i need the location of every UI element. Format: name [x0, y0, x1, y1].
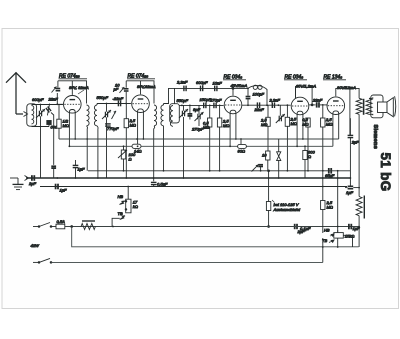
- cap diagonal 22nF: [42, 104, 54, 116]
- svg-text:22nF: 22nF: [48, 97, 59, 102]
- cap 65uF: [329, 168, 331, 174]
- fuse 0,5A: [56, 224, 65, 229]
- svg-text:22nF: 22nF: [254, 107, 265, 112]
- svg-text:Austauschtafel: Austauschtafel: [273, 207, 301, 212]
- trimmer: [179, 109, 188, 118]
- antenna: [6, 72, 26, 114]
- detector coil box: [170, 104, 180, 123]
- arrow: [112, 111, 117, 119]
- svg-text:TB: TB: [322, 238, 327, 243]
- svg-text:80Ω: 80Ω: [238, 149, 246, 154]
- rail L4 main bus: [26, 177, 350, 179]
- rail L3: [88, 170, 350, 172]
- svg-text:600pF: 600pF: [32, 97, 44, 102]
- field coil: [356, 196, 364, 248]
- cap 1uF top right: [348, 186, 354, 188]
- svg-text:1μF: 1μF: [78, 167, 85, 172]
- svg-text:Ω: Ω: [308, 154, 311, 159]
- svg-text:1μF: 1μF: [60, 188, 67, 193]
- cap 0,5uF on L5: [151, 182, 157, 184]
- rail L1: [59, 138, 339, 140]
- wire to stage2 grid: [97, 103, 131, 105]
- wire down: [72, 227, 359, 247]
- selector switch HB/TB left: [112, 187, 138, 227]
- IF transformer T2 primary: [154, 105, 157, 126]
- anode wire: [232, 88, 234, 95]
- svg-text:10nF: 10nF: [213, 81, 223, 86]
- grid resistor 2,5MΩ: [321, 118, 325, 127]
- svg-text:2μF: 2μF: [351, 140, 359, 145]
- arrow diag detector: [252, 165, 259, 172]
- RF choke: [248, 86, 266, 89]
- svg-text:kΩ: kΩ: [133, 204, 138, 209]
- variable capacitor C1: [36, 109, 45, 118]
- svg-text:0,5μF: 0,5μF: [157, 182, 168, 187]
- svg-text:65μF: 65μF: [325, 173, 335, 178]
- cap 1uF bottom: [349, 224, 351, 230]
- svg-text:MΩ: MΩ: [63, 123, 69, 128]
- resistor with note: [266, 151, 270, 160]
- svg-text:MΩ: MΩ: [130, 123, 136, 128]
- resistor 1,5MΩ: [285, 117, 289, 126]
- anode wire: [126, 81, 154, 104]
- svg-text:pF: pF: [113, 87, 119, 92]
- trimmer cap diagonal: [57, 81, 59, 88]
- filament wires: [229, 113, 231, 146]
- tube U1 RE074: [64, 96, 82, 114]
- resistor 500: [47, 121, 51, 125]
- grid wire: [57, 103, 63, 105]
- svg-text:Ω: Ω: [129, 157, 132, 162]
- tube U3 RE034: [224, 96, 242, 114]
- svg-text:MΩ: MΩ: [302, 122, 308, 127]
- wire grid line stage1: [32, 104, 63, 106]
- speaker: [369, 95, 396, 118]
- svg-text:1μF: 1μF: [346, 190, 353, 195]
- rail L5: [40, 186, 347, 188]
- anode wire: [295, 86, 297, 98]
- oval rheostat: [132, 144, 142, 153]
- svg-text:22nF: 22nF: [312, 98, 323, 103]
- trimmer 2: [195, 112, 204, 121]
- svg-text:600pF: 600pF: [196, 80, 208, 85]
- svg-text:42W: 42W: [31, 243, 41, 248]
- cap on L5: [56, 184, 58, 190]
- grid resistor R1 1/2 MΩ: [57, 119, 61, 128]
- svg-text:10: 10: [262, 153, 267, 158]
- cap 1uF mid: [73, 165, 79, 167]
- IF transformer T1 secondary: [94, 105, 97, 126]
- resistor right: [321, 201, 325, 210]
- resistor 2,5MΩ: [219, 105, 221, 119]
- svg-text:550pF: 550pF: [97, 95, 109, 100]
- rail L2: [69, 145, 333, 147]
- resistor with note mid: [266, 202, 270, 211]
- wire: [40, 105, 42, 111]
- detector grid wire: [179, 104, 223, 106]
- tube U5 RE134: [327, 97, 345, 115]
- wire with cap to bus: [51, 113, 54, 165]
- svg-text:2,2nF: 2,2nF: [176, 80, 188, 85]
- svg-text:95V/1,2mA: 95V/1,2mA: [296, 84, 316, 89]
- svg-text:HB: HB: [324, 228, 330, 233]
- filament: [332, 114, 334, 147]
- oval rheostat 2: [238, 139, 247, 154]
- svg-text:0,5A: 0,5A: [57, 219, 66, 224]
- svg-text:100pF: 100pF: [253, 92, 265, 97]
- svg-text:550pF: 550pF: [177, 98, 189, 103]
- anode wire: [336, 88, 359, 98]
- cap: [189, 105, 191, 113]
- svg-text:MΩ: MΩ: [223, 123, 229, 128]
- svg-text:HB: HB: [118, 194, 124, 199]
- tube U2 RE074: [132, 95, 150, 113]
- antenna jack: [24, 112, 28, 117]
- cap 770pF: [105, 124, 111, 126]
- output transformer: [356, 98, 372, 196]
- resistor 0,5MΩ: [209, 105, 211, 119]
- svg-text:14Ω: 14Ω: [134, 149, 142, 154]
- svg-text:95V,82mA: 95V,82mA: [137, 84, 156, 89]
- svg-text:MΩ: MΩ: [327, 205, 333, 210]
- cap 22nF inline: [257, 102, 259, 108]
- rheostat 200 ohm: [118, 146, 136, 171]
- svg-text:TB: TB: [118, 211, 123, 216]
- svg-text:51 bG: 51 bG: [378, 153, 393, 192]
- IF transformer T2 secondary: [161, 105, 164, 126]
- svg-text:MΩ: MΩ: [291, 121, 297, 126]
- vertical wires right: [337, 171, 339, 247]
- cap 2uF on bus: [32, 175, 34, 181]
- trimmer C: [102, 110, 111, 119]
- svg-text:15kΩ: 15kΩ: [345, 234, 355, 239]
- IF transformer T1 primary: [87, 105, 90, 126]
- tube U4 RE034: [291, 97, 309, 115]
- filament wires: [68, 113, 70, 147]
- hourglass lamp: [277, 152, 281, 161]
- filament: [296, 114, 298, 146]
- filament wires: [137, 112, 139, 146]
- cap blob with arrow: [258, 165, 263, 167]
- svg-text:0,1μF: 0,1μF: [300, 226, 311, 231]
- svg-text:770pF: 770pF: [107, 126, 119, 131]
- cap on L7: [295, 224, 297, 229]
- grid resistor R2 2,5MΩ: [125, 104, 127, 119]
- detector output wire: [242, 104, 291, 106]
- selector switch HB/TB right: [322, 228, 354, 248]
- ground: [10, 178, 24, 190]
- svg-text:-22nF: -22nF: [113, 96, 124, 101]
- wire coil bottom: [31, 125, 33, 127]
- svg-text:MΩ: MΩ: [203, 125, 209, 130]
- svg-text:MΩ: MΩ: [261, 122, 267, 127]
- resistor 600 box right: [303, 151, 307, 160]
- cap 100pF: [247, 88, 249, 95]
- bottom: switch 1: [33, 223, 56, 228]
- svg-text:270pF: 270pF: [209, 97, 222, 102]
- anode wire: [58, 81, 87, 104]
- svg-text:Siemens: Siemens: [372, 125, 378, 150]
- svg-text:90V/12mA: 90V/12mA: [337, 85, 356, 90]
- svg-text:MΩ: MΩ: [326, 122, 332, 127]
- svg-text:2,2nF: 2,2nF: [269, 98, 281, 103]
- cap 2uF: [348, 135, 354, 137]
- trimmer on grid: [276, 114, 285, 123]
- svg-text:9pF: 9pF: [193, 107, 201, 112]
- switch 2: [33, 258, 323, 263]
- antenna coil L1: [27, 104, 37, 126]
- resistor 0,2MΩ: [306, 118, 310, 127]
- wire top rail detector: [164, 88, 249, 103]
- svg-text:2μF: 2μF: [28, 181, 36, 186]
- heater resistor zigzag: [81, 224, 95, 230]
- resistor 2,5M: [267, 105, 269, 117]
